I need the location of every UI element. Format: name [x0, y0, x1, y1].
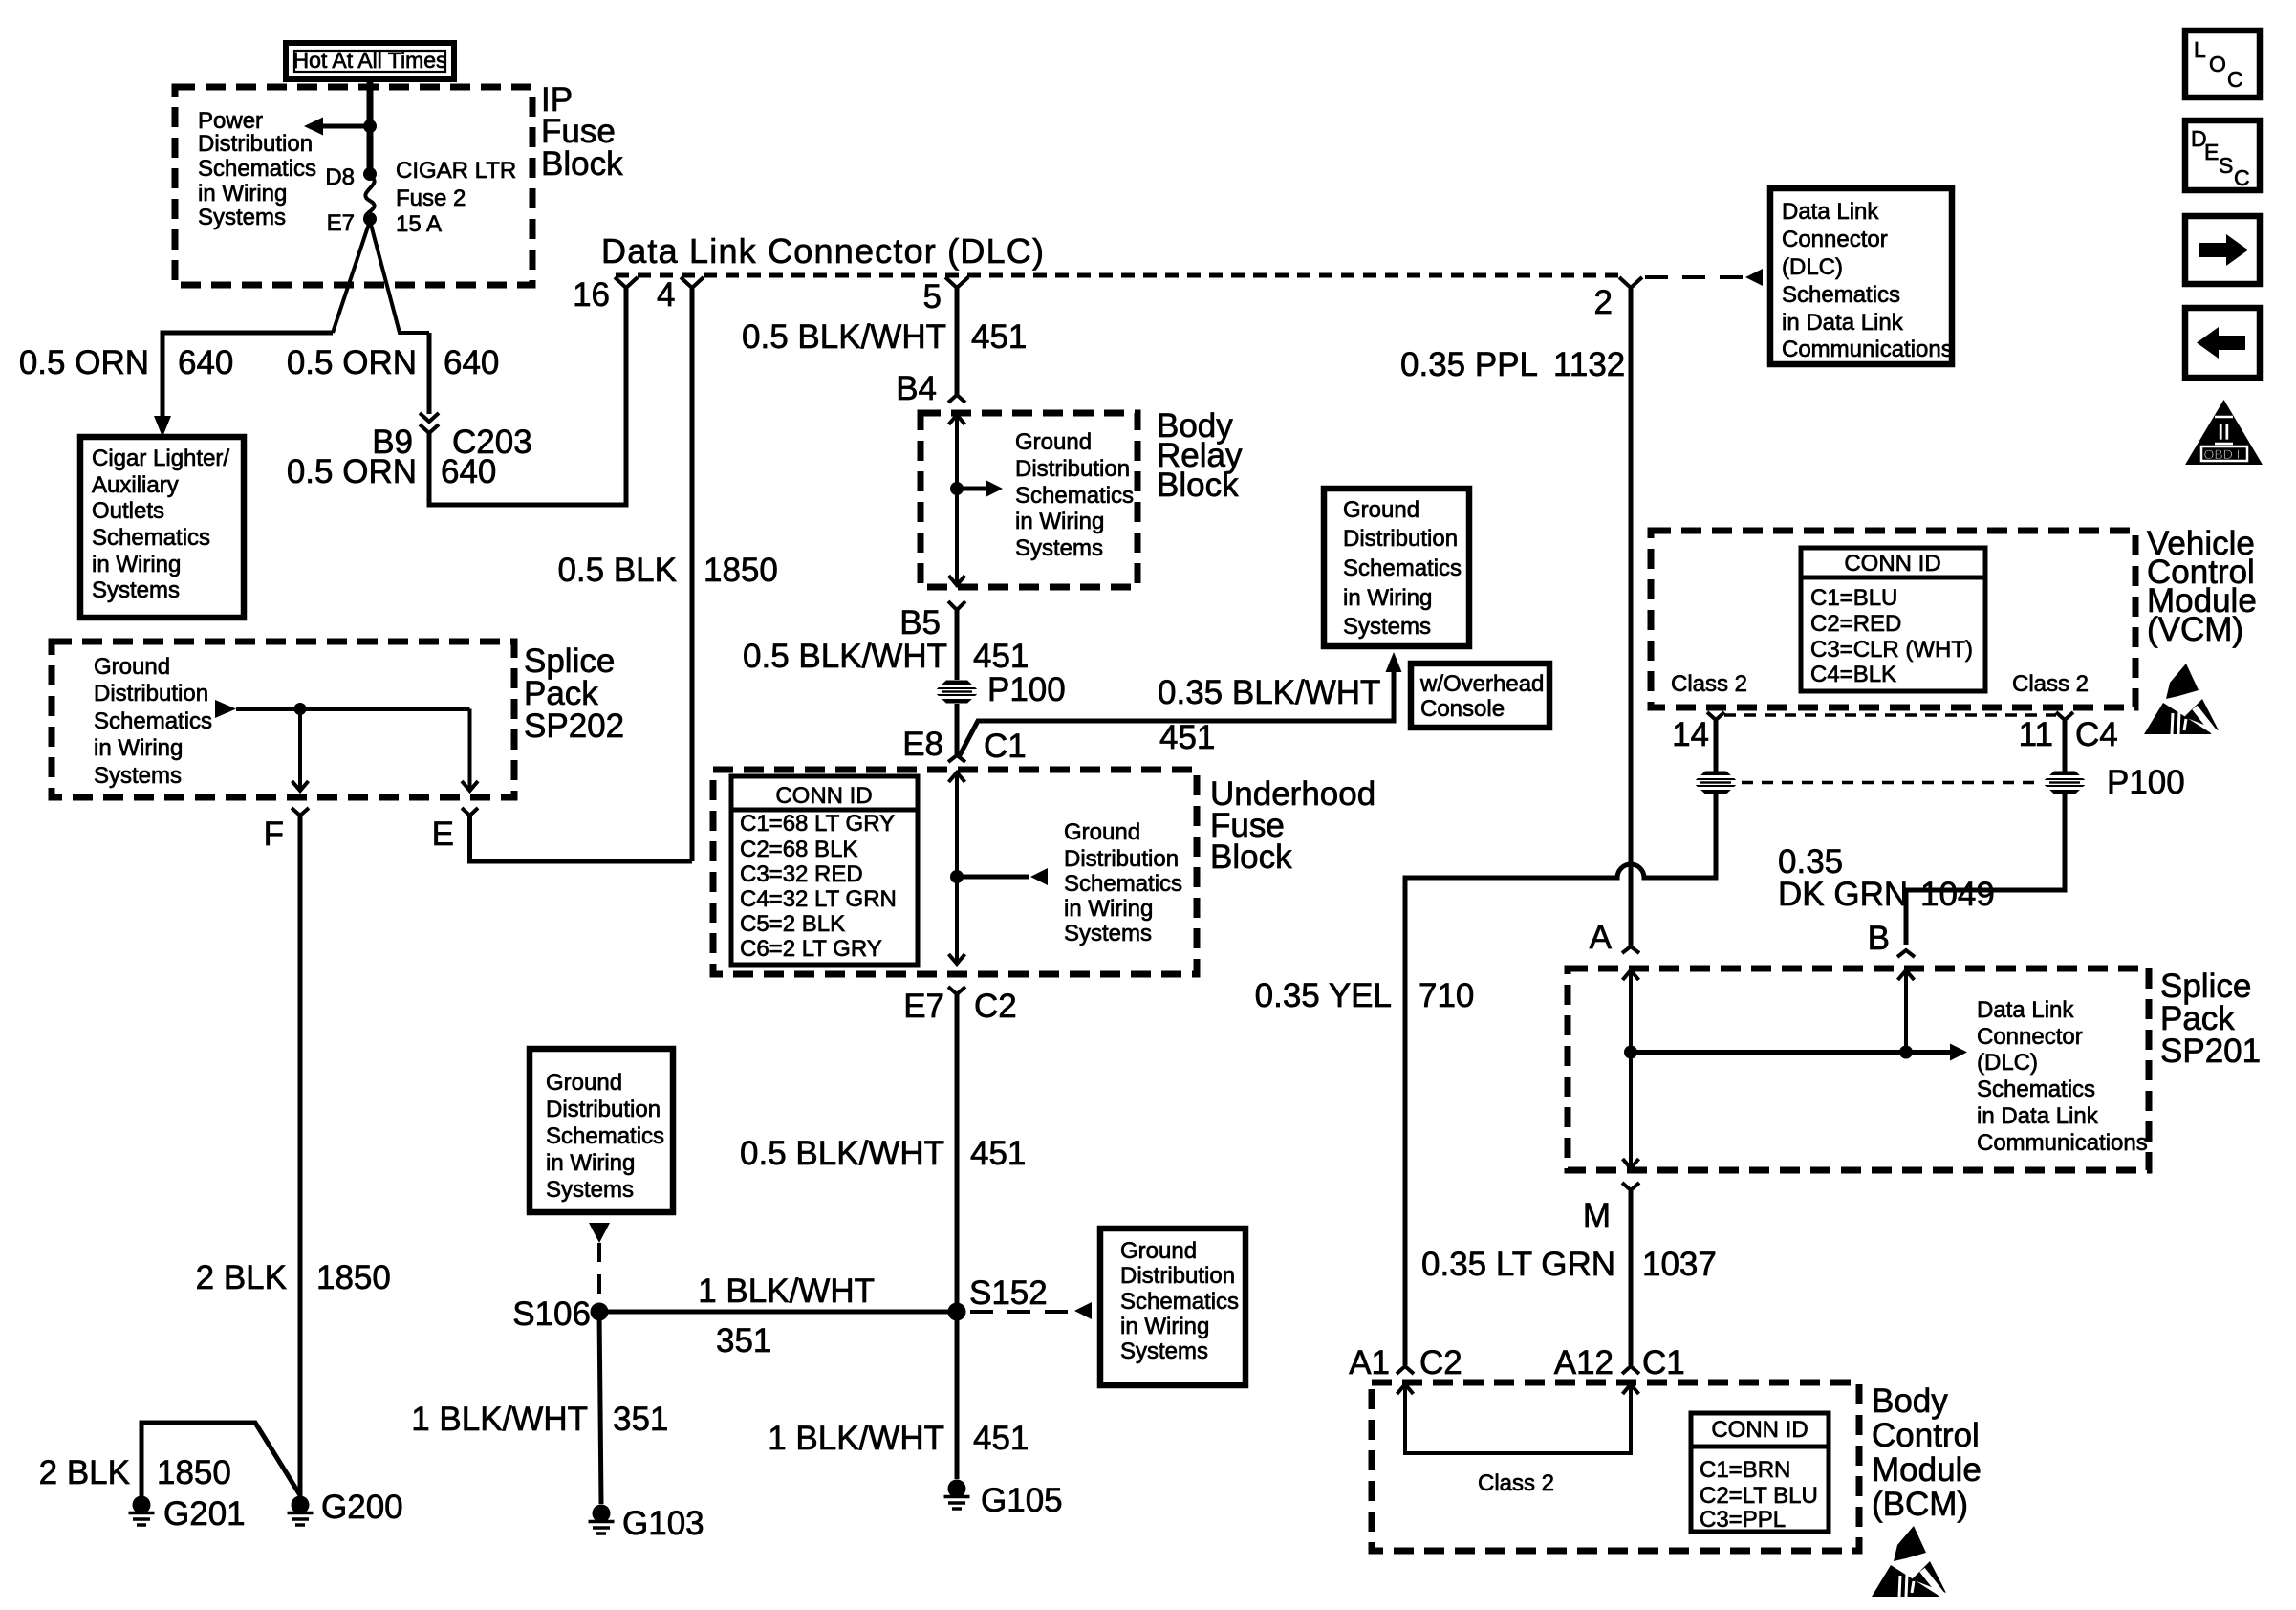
table CONN ID (BCM)	[1691, 1413, 1829, 1533]
ground G200	[288, 1496, 314, 1526]
svg-text:11: 11	[2019, 716, 2053, 753]
svg-text:Communications: Communications	[1782, 337, 1953, 362]
svg-text:4: 4	[657, 276, 675, 314]
wire B5 to P100	[955, 610, 960, 680]
svg-text:351: 351	[716, 1322, 771, 1360]
node junction on feed wire	[363, 120, 377, 133]
pin A1 C2 connector into BCM	[1349, 1344, 1462, 1382]
svg-text:C1: C1	[984, 728, 1027, 765]
svg-text:DK GRN: DK GRN	[1778, 876, 1908, 913]
svg-text:451: 451	[971, 318, 1027, 356]
svg-text:14: 14	[1672, 716, 1709, 753]
svg-text:S152: S152	[969, 1274, 1048, 1312]
icon LOC box	[2185, 31, 2260, 98]
note Ground Distribution Schematics in Wiring Systems (overhead)	[1324, 489, 1469, 646]
table CONN ID (Underhood)	[731, 776, 918, 965]
note Cigar Lighter Auxiliary Outlets box	[80, 437, 244, 618]
ESD symbol (VCM)	[2144, 664, 2219, 734]
Splice Pack SP201 dashed box	[1568, 968, 2149, 1170]
icon DESC box	[2185, 120, 2260, 190]
svg-text:15 A: 15 A	[396, 211, 442, 237]
svg-text:C: C	[2227, 67, 2243, 92]
svg-text:Data Link Connector (DLC): Data Link Connector (DLC)	[601, 231, 1045, 271]
svg-text:Systems: Systems	[92, 577, 180, 603]
note w/Overhead Console	[1411, 664, 1549, 728]
wire arrow to Power Distribution reference	[321, 124, 370, 129]
svg-text:640: 640	[441, 453, 496, 490]
svg-text:Power: Power	[198, 108, 263, 134]
wire P100 right down to B 0.35 DK GRN 1049	[1906, 794, 2065, 945]
svg-text:C2=68 BLK: C2=68 BLK	[740, 837, 857, 862]
svg-text:in Wiring: in Wiring	[1120, 1314, 1209, 1339]
svg-text:640: 640	[178, 344, 233, 381]
connector P100 inline (left)	[1693, 772, 1739, 794]
svg-text:II: II	[2218, 420, 2230, 446]
svg-text:B5: B5	[899, 604, 941, 642]
svg-text:1 BLK/WHT: 1 BLK/WHT	[698, 1273, 875, 1310]
Body Control Module dashed box	[1372, 1382, 1859, 1551]
svg-text:Distribution: Distribution	[94, 681, 208, 707]
svg-text:in Wiring: in Wiring	[546, 1150, 635, 1176]
table CONN ID (VCM)	[1801, 548, 1985, 691]
wire DLC pin 4 down 0.5 BLK 1850	[690, 288, 695, 861]
connector P100 inline	[934, 681, 980, 704]
svg-text:C4=BLK: C4=BLK	[1810, 662, 1896, 687]
svg-text:(DLC): (DLC)	[1977, 1050, 2038, 1076]
label 0.5 ORN 640 lower	[287, 453, 497, 490]
svg-text:C: C	[2234, 165, 2250, 190]
svg-text:A: A	[1590, 919, 1613, 956]
svg-text:Systems: Systems	[546, 1177, 634, 1203]
wire P100 left down and across to 0.35 YEL with hop	[1405, 794, 1716, 1365]
svg-text:O: O	[2209, 52, 2226, 76]
svg-text:in Wiring: in Wiring	[198, 181, 287, 207]
svg-text:Fuse 2: Fuse 2	[396, 185, 466, 211]
svg-text:in Wiring: in Wiring	[92, 552, 181, 577]
icon right arrow box	[2185, 216, 2260, 284]
svg-text:Schematics: Schematics	[1782, 282, 1900, 308]
svg-text:Data Link: Data Link	[1977, 997, 2074, 1023]
wire from Hot At All Times to fuse	[367, 79, 374, 174]
wire through Underhood Fuse Block	[949, 772, 965, 964]
svg-text:1132: 1132	[1553, 346, 1625, 383]
svg-text:E: E	[2204, 140, 2219, 164]
svg-text:C2: C2	[1419, 1344, 1462, 1382]
pin B5 connector out of Body Relay Block	[899, 601, 965, 642]
svg-text:G201: G201	[163, 1495, 246, 1533]
svg-text:1850: 1850	[157, 1454, 231, 1491]
pin 16	[573, 276, 638, 314]
label 0.5 ORN 640 middle	[287, 344, 500, 381]
ground G103	[589, 1505, 615, 1534]
svg-text:Schematics: Schematics	[1120, 1289, 1239, 1315]
svg-text:C4=32 LT GRN: C4=32 LT GRN	[740, 886, 897, 912]
svg-text:0.5 BLK/WHT: 0.5 BLK/WHT	[743, 638, 947, 675]
svg-text:S106: S106	[512, 1295, 591, 1333]
svg-text:in Wiring: in Wiring	[1015, 509, 1104, 534]
label 0.35 DK GRN 1049	[1778, 843, 1995, 913]
icon left arrow box	[2185, 308, 2260, 378]
note Power Distribution Schematics in Wiring Systems	[198, 108, 316, 230]
svg-text:in Wiring: in Wiring	[1343, 585, 1432, 611]
svg-text:C3=PPL: C3=PPL	[1700, 1507, 1786, 1533]
pin E7 C2 connector out of Underhood Fuse Block	[903, 987, 1017, 1025]
svg-text:Block: Block	[1157, 467, 1239, 504]
svg-text:M: M	[1583, 1197, 1611, 1234]
pin B4 connector into Body Relay Block	[896, 370, 965, 407]
svg-text:Distribution: Distribution	[1015, 456, 1130, 482]
pin 11 C4 connector	[2019, 712, 2118, 753]
svg-text:451: 451	[970, 1135, 1026, 1172]
wire F down to G200	[298, 816, 303, 1496]
Underhood Fuse Block title	[1210, 775, 1375, 876]
note Ground Distribution Schematics in Wiring Systems (Underhood)	[1064, 819, 1182, 946]
svg-text:0.35 YEL: 0.35 YEL	[1255, 977, 1392, 1014]
svg-text:Auxiliary: Auxiliary	[92, 472, 179, 498]
wire DLC pin 2 down to A	[1629, 288, 1634, 946]
label 1 BLK/WHT 451 (G105 wire)	[768, 1420, 1029, 1457]
svg-text:G105: G105	[981, 1482, 1063, 1519]
wire S106 to S152 1 BLK/WHT 351	[599, 1310, 957, 1315]
svg-text:451: 451	[973, 1420, 1029, 1457]
svg-text:Body: Body	[1872, 1382, 1948, 1420]
svg-text:Outlets: Outlets	[92, 498, 164, 524]
Splice Pack SP201 title	[2160, 968, 2261, 1070]
svg-text:C3=32 RED: C3=32 RED	[740, 861, 863, 887]
svg-text:16: 16	[573, 276, 610, 314]
svg-text:CONN ID: CONN ID	[1844, 551, 1940, 577]
label 0.35 LT GRN 1037	[1421, 1246, 1717, 1283]
wire C203 to DLC pin 16	[429, 288, 626, 505]
svg-text:Schematics: Schematics	[198, 156, 316, 182]
svg-text:C6=2 LT GRY: C6=2 LT GRY	[740, 936, 882, 962]
svg-text:C5=2 BLK: C5=2 BLK	[740, 911, 845, 937]
svg-text:Distribution: Distribution	[198, 131, 313, 157]
note Ground Distribution Schematics in Wiring Systems (S106)	[530, 1049, 673, 1212]
wire B into SP201	[1898, 970, 1915, 1053]
svg-text:Schematics: Schematics	[1977, 1077, 2095, 1102]
svg-text:Connector: Connector	[1977, 1024, 2083, 1050]
svg-text:SP201: SP201	[2160, 1033, 2261, 1070]
svg-text:Schematics: Schematics	[1015, 483, 1134, 509]
svg-text:E7: E7	[903, 988, 944, 1025]
Splice Pack SP202 title	[524, 642, 624, 745]
svg-text:w/Overhead: w/Overhead	[1419, 671, 1544, 697]
svg-text:Schematics: Schematics	[94, 708, 212, 734]
pin 2	[1594, 277, 1642, 321]
node S152 splice	[948, 1303, 966, 1321]
ESD symbol (BCM)	[1872, 1526, 1946, 1597]
note Data Link Connector (DLC) Schematics text (SP201)	[1977, 997, 2148, 1156]
svg-text:in Wiring: in Wiring	[1064, 896, 1153, 922]
svg-text:in Data Link: in Data Link	[1977, 1103, 2099, 1129]
svg-text:E7: E7	[327, 210, 355, 236]
note Ground Distribution Schematics in Wiring Systems (S152)	[1100, 1229, 1245, 1385]
label B9 C203	[372, 424, 531, 461]
svg-text:710: 710	[1419, 977, 1474, 1014]
node SP201 junction A	[1624, 1046, 1637, 1059]
wire E7/C2 down to S152	[955, 994, 960, 1312]
Body Control Module title	[1872, 1382, 1982, 1523]
svg-text:Connector: Connector	[1782, 227, 1888, 252]
wire dashed reference to S106	[589, 1223, 610, 1302]
note Data Link Connector (DLC) Schematics box	[1770, 188, 1953, 364]
wire M down to A12 0.35 LT GRN 1037	[1629, 1190, 1634, 1365]
svg-text:Distribution: Distribution	[1120, 1263, 1235, 1289]
label 0.35 PPL 1132	[1400, 346, 1625, 383]
svg-text:Cigar Lighter/: Cigar Lighter/	[92, 446, 229, 471]
svg-text:Communications: Communications	[1977, 1130, 2148, 1156]
svg-text:0.5 ORN: 0.5 ORN	[287, 453, 417, 490]
label 0.5 BLK 1850	[557, 552, 777, 589]
svg-text:C1=68 LT GRY: C1=68 LT GRY	[740, 811, 895, 837]
wire E7 left diagonal	[333, 221, 370, 333]
IP Fuse Block title	[541, 81, 623, 183]
svg-text:Ground: Ground	[1064, 819, 1140, 845]
svg-text:G200: G200	[321, 1489, 403, 1526]
svg-text:A1: A1	[1349, 1344, 1390, 1382]
svg-text:C4: C4	[2075, 716, 2118, 753]
svg-text:Systems: Systems	[1343, 614, 1431, 640]
label 0.35 YEL 710	[1255, 977, 1475, 1014]
svg-text:451: 451	[973, 638, 1029, 675]
wire arrow to Ground Distribution reference	[957, 480, 1003, 497]
svg-text:2: 2	[1594, 284, 1613, 321]
svg-text:Ground: Ground	[1120, 1238, 1197, 1264]
svg-text:E8: E8	[902, 726, 943, 763]
svg-text:1 BLK/WHT: 1 BLK/WHT	[411, 1401, 588, 1438]
svg-text:0.35 BLK/WHT: 0.35 BLK/WHT	[1158, 674, 1380, 711]
svg-text:Module: Module	[1872, 1451, 1982, 1489]
svg-text:Class 2: Class 2	[1671, 671, 1747, 697]
wire A through SP201	[1623, 970, 1639, 1168]
svg-text:Class 2: Class 2	[2012, 671, 2089, 697]
svg-text:1850: 1850	[704, 552, 778, 589]
svg-text:0.5 ORN: 0.5 ORN	[287, 344, 417, 381]
node S106 splice	[591, 1303, 609, 1321]
wire E7 right diagonal	[370, 221, 429, 333]
label 0.5 ORN 640 left	[19, 344, 234, 381]
wire S106 down to G103	[599, 1312, 601, 1504]
svg-text:CIGAR LTR: CIGAR LTR	[396, 158, 516, 184]
wire SP202 to E	[462, 709, 478, 792]
pin 4	[657, 276, 704, 314]
svg-text:1850: 1850	[316, 1259, 391, 1296]
pin M connector out of SP201	[1583, 1183, 1639, 1234]
svg-text:(BCM): (BCM)	[1872, 1486, 1968, 1523]
svg-text:Ground: Ground	[94, 654, 170, 680]
svg-text:B4: B4	[896, 370, 937, 407]
svg-text:Control: Control	[1872, 1417, 1980, 1454]
svg-text:Systems: Systems	[1120, 1338, 1208, 1364]
svg-text:0.35 PPL: 0.35 PPL	[1400, 346, 1538, 383]
node Hot At All Times	[286, 43, 454, 79]
label 2 BLK 1850 (G201 wire)	[39, 1454, 231, 1491]
svg-text:A12: A12	[1554, 1344, 1614, 1382]
wire pin 11 to P100	[2063, 720, 2068, 772]
svg-text:C2: C2	[974, 988, 1017, 1025]
svg-text:S: S	[2219, 153, 2233, 178]
wire arrow from Ground Distribution reference (SP202)	[215, 700, 470, 718]
svg-text:Ground: Ground	[546, 1070, 622, 1096]
wire P100 to E8	[955, 704, 960, 755]
svg-text:(DLC): (DLC)	[1782, 254, 1843, 280]
Vehicle Control Module title	[2147, 525, 2257, 648]
svg-text:E: E	[432, 816, 454, 853]
svg-text:C2=LT BLU: C2=LT BLU	[1700, 1483, 1818, 1509]
pin F connector	[264, 808, 309, 853]
wire G201 branch	[141, 1423, 300, 1496]
svg-text:Block: Block	[1210, 838, 1292, 876]
pin A12 C1 connector into BCM	[1554, 1344, 1685, 1382]
svg-text:2 BLK: 2 BLK	[39, 1454, 130, 1491]
wire dashed reference from S152	[970, 1302, 1092, 1319]
svg-text:Data Link: Data Link	[1782, 199, 1879, 225]
svg-text:G103: G103	[622, 1505, 704, 1542]
label 0.5 BLK/WHT 451 mid	[743, 638, 1029, 675]
svg-text:Schematics: Schematics	[1064, 871, 1182, 897]
svg-text:Systems: Systems	[94, 763, 182, 789]
wire 0.35 BLK/WHT 451 branch right	[959, 671, 1394, 757]
svg-text:C1: C1	[1642, 1344, 1685, 1382]
svg-text:351: 351	[613, 1401, 668, 1438]
pin B connector into SP201	[1868, 920, 1915, 957]
Underhood Fuse Block dashed box	[713, 770, 1197, 974]
svg-text:0.5 BLK: 0.5 BLK	[557, 552, 677, 589]
svg-text:Distribution: Distribution	[1064, 846, 1179, 872]
svg-text:Class 2: Class 2	[1478, 1470, 1554, 1496]
svg-text:CONN ID: CONN ID	[1711, 1417, 1808, 1443]
svg-text:F: F	[264, 816, 284, 853]
wire pin 14 to P100	[1714, 720, 1719, 772]
IP Fuse Block dashed box	[175, 87, 532, 285]
svg-text:OBD II: OBD II	[2203, 446, 2243, 462]
Vehicle Control Module dashed box	[1651, 531, 2135, 707]
label 0.5 BLK/WHT 451 lower	[740, 1135, 1026, 1172]
wire Class 2 loop inside BCM	[1397, 1384, 1639, 1453]
svg-text:0.5 BLK/WHT: 0.5 BLK/WHT	[740, 1135, 944, 1172]
svg-text:Systems: Systems	[1064, 921, 1152, 946]
wire dashed reference from DLC pin 2	[1645, 269, 1763, 286]
icon OBD II triangle	[2185, 400, 2263, 465]
node junction in Body Relay Block	[950, 482, 964, 495]
svg-text:1 BLK/WHT: 1 BLK/WHT	[768, 1420, 944, 1457]
svg-text:Schematics: Schematics	[546, 1123, 664, 1149]
note Ground Distribution Schematics in Wiring Systems (Body Relay)	[1015, 429, 1134, 561]
svg-text:Schematics: Schematics	[1343, 555, 1462, 581]
pin 14 connector	[1672, 712, 1724, 753]
pin A connector into SP201	[1590, 919, 1639, 956]
label 0.35 BLK/WHT 451	[1158, 674, 1380, 756]
Body Relay Block dashed box	[921, 413, 1137, 587]
svg-text:451: 451	[1159, 719, 1215, 756]
svg-text:C3=CLR (WHT): C3=CLR (WHT)	[1810, 637, 1973, 663]
wire arrow to DLC schematics reference (SP201)	[1631, 1044, 1967, 1061]
svg-text:5: 5	[923, 278, 942, 315]
svg-text:2 BLK: 2 BLK	[196, 1259, 287, 1296]
svg-text:L: L	[2194, 37, 2206, 62]
svg-text:1037: 1037	[1642, 1246, 1717, 1283]
svg-text:B: B	[1868, 920, 1890, 957]
wire DLC pin 5 down	[955, 288, 960, 395]
wire dashed connector face under VCM	[1724, 713, 2056, 716]
pin E connector	[432, 808, 478, 853]
connector C203 pin B9	[420, 413, 439, 433]
pin 5	[923, 277, 968, 315]
node junction in Underhood Fuse Block	[950, 870, 964, 883]
svg-text:P100: P100	[2107, 764, 2185, 801]
wire S152 down to G105	[955, 1312, 960, 1479]
wire dashed between P100 halves	[1742, 781, 2039, 784]
svg-text:Systems: Systems	[1015, 535, 1103, 561]
wire arrow to Ground Distribution reference (Underhood)	[957, 868, 1048, 885]
svg-text:C1=BRN: C1=BRN	[1700, 1457, 1790, 1483]
svg-text:Schematics: Schematics	[92, 525, 210, 551]
label 1 BLK/WHT 351 (G103 wire)	[411, 1401, 668, 1438]
pin E8 C1 connector into Underhood Fuse Block	[902, 726, 1027, 765]
svg-text:Systems: Systems	[198, 205, 286, 230]
svg-text:CONN ID: CONN ID	[775, 783, 872, 809]
svg-text:C2=RED: C2=RED	[1810, 611, 1901, 637]
svg-text:P100: P100	[987, 671, 1066, 708]
wire SP202 to F	[292, 709, 309, 792]
svg-text:Console: Console	[1420, 696, 1505, 722]
value CIGAR LTR Fuse 2 15 A	[396, 158, 516, 237]
wire E to DLC pin 4 wire	[470, 816, 693, 861]
node SP202 junction	[294, 703, 307, 715]
label 2 BLK 1850 (F wire)	[196, 1259, 391, 1296]
svg-text:Distribution: Distribution	[546, 1097, 661, 1122]
ground G105	[944, 1480, 970, 1510]
svg-text:Ground: Ground	[1343, 497, 1419, 523]
svg-text:C1=BLU: C1=BLU	[1810, 585, 1897, 611]
wire DLC dashed bus	[616, 273, 1622, 278]
connector P100 inline (right)	[2042, 772, 2088, 794]
svg-text:Distribution: Distribution	[1343, 526, 1458, 552]
svg-text:0.35 LT GRN: 0.35 LT GRN	[1421, 1246, 1615, 1283]
svg-text:in Wiring: in Wiring	[94, 735, 183, 761]
note Ground Distribution Schematics in Wiring Systems (SP202)	[94, 654, 212, 789]
node SP201 junction B	[1899, 1046, 1913, 1059]
Body Relay Block title	[1157, 407, 1243, 504]
svg-text:in Data Link: in Data Link	[1782, 310, 1904, 336]
svg-text:SP202: SP202	[524, 707, 624, 745]
fuse F2 CIGAR LTR 15A	[363, 167, 377, 226]
svg-text:0.5 BLK/WHT: 0.5 BLK/WHT	[742, 318, 946, 356]
svg-text:Ground: Ground	[1015, 429, 1092, 455]
wire to cigar lighter reference	[162, 333, 333, 418]
svg-text:D8: D8	[325, 164, 355, 190]
svg-text:1049: 1049	[1920, 876, 1995, 913]
svg-text:Block: Block	[541, 145, 623, 183]
label 0.5 BLK/WHT 451 top	[742, 318, 1027, 356]
svg-text:0.5 ORN: 0.5 ORN	[19, 344, 149, 381]
wire through Body Relay Block	[949, 415, 965, 585]
svg-text:Hot At All Times: Hot At All Times	[292, 48, 446, 73]
wire 0.5 ORN 640 branch to C203	[427, 333, 432, 414]
ground G201	[129, 1496, 155, 1526]
Splice Pack SP202 dashed box	[52, 642, 514, 797]
svg-text:(VCM): (VCM)	[2147, 611, 2243, 648]
svg-text:640: 640	[444, 344, 499, 381]
